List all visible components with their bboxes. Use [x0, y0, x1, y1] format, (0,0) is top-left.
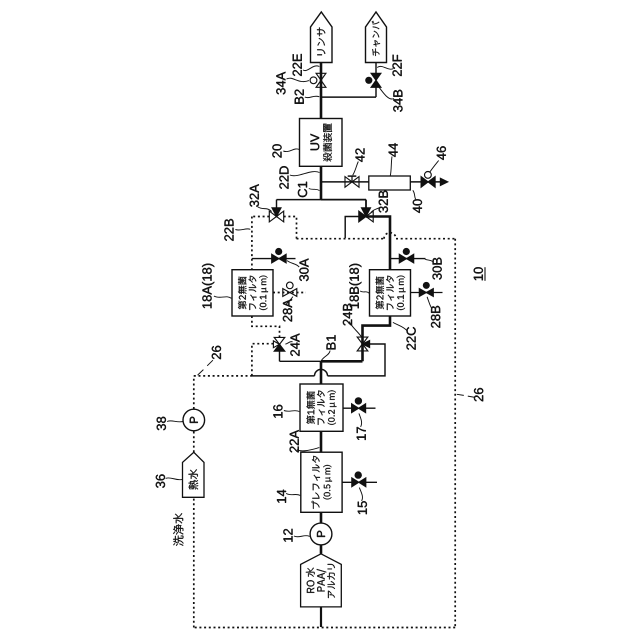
label B2	[295, 90, 304, 104]
pump P38 letter	[190, 417, 198, 423]
filter box 18A	[232, 270, 273, 316]
wire UV-to-C1 segment 22D (bold)	[320, 166, 323, 199]
pump P38 circle	[183, 409, 205, 431]
valve 46 with actuator circle	[425, 172, 432, 179]
wire main riser rinser-to-UV (bold)	[320, 63, 323, 119]
label 42	[355, 148, 364, 162]
chamber outlet box (arrow up)	[366, 12, 387, 63]
label 22E	[293, 54, 302, 76]
label 34B	[393, 90, 402, 112]
valve 28B (closed w/ actuator)	[419, 289, 426, 297]
valve 42 with T handle	[351, 176, 353, 182]
label 30B	[433, 258, 442, 280]
wire B2 branch to valve 34B	[321, 96, 376, 98]
wire C1 right to 32B top (bold)	[321, 199, 366, 201]
wire hot-water hop over main line	[315, 369, 328, 376]
wire dotted right rail 26	[454, 239, 456, 628]
label 22A	[290, 430, 299, 452]
label 22C	[407, 327, 416, 350]
wire stub valve 28B	[411, 292, 443, 294]
pump P12 circle	[310, 523, 332, 545]
label 20	[272, 144, 281, 157]
hot water text	[189, 469, 199, 489]
wire B1 left thin	[280, 360, 322, 362]
label B1	[327, 335, 336, 349]
wire B1 right (bold)	[321, 360, 363, 363]
wire dotted hot-water feed corner	[194, 375, 252, 377]
wire B1 down to filter 16 (bold)	[320, 361, 323, 384]
label 10 underlined	[474, 267, 483, 280]
label 32B	[379, 191, 388, 213]
filter 18B text	[376, 276, 406, 310]
filter 16 text	[306, 390, 336, 424]
wire dotted hot-water branch to 24A	[252, 344, 274, 376]
wire dotted filter 18A to valve 24A	[252, 316, 280, 337]
wire prefilter to pump 12 (bold)	[320, 512, 323, 523]
label 28B	[431, 306, 440, 328]
wire riser chamber below 34B	[375, 88, 377, 98]
wire hot-water feed solid left	[252, 375, 315, 377]
wire 32B drain to return line	[345, 217, 359, 239]
rinser outlet box (arrow up)	[311, 12, 333, 63]
label 18B(18)	[349, 264, 361, 308]
wire valve 24A to B1	[279, 351, 281, 361]
valve 17 (closed w/ actuator)	[352, 404, 359, 413]
UV sterilizer text UV	[311, 134, 320, 150]
three-way valve 24A	[273, 341, 279, 348]
wire drain line 40	[321, 181, 441, 183]
wire dotted pump 38 up to corner	[193, 376, 195, 409]
hot water supply box (arrow up)	[183, 452, 205, 497]
label 44	[389, 143, 398, 157]
label 40	[413, 199, 422, 213]
wire down to valve 32B	[365, 200, 367, 209]
wire stub valve 17	[343, 407, 376, 409]
label 26 left	[212, 346, 221, 359]
label 30A	[299, 259, 308, 282]
label 16	[273, 405, 282, 418]
wire dotted return line 26 left part	[297, 238, 385, 240]
wire dotted bottom rail 26	[194, 627, 455, 629]
label 26 right	[474, 388, 483, 401]
wire riser chamber above 34B	[375, 63, 377, 74]
wire 32A to filter 18A dotted	[251, 217, 253, 270]
wire 32B to filter 18B feed (bold)	[366, 217, 390, 270]
valve 28A (open w/ circle)	[283, 289, 290, 297]
label 36	[156, 474, 165, 487]
filter box 16	[300, 384, 343, 431]
three-way valve 32B	[359, 211, 366, 222]
wire C1 left to valve 32A	[277, 199, 322, 201]
chamber label text	[372, 21, 380, 56]
label 22F	[393, 55, 402, 76]
wire hot-water feed solid right	[328, 344, 386, 376]
filter 18A text	[238, 276, 268, 310]
wire stub valve 30A	[252, 258, 296, 260]
wire dotted return line 26 right part	[396, 238, 455, 240]
three-way valve 24B	[357, 337, 368, 344]
valve 34A (open, to rinser)	[316, 73, 326, 80]
RO water supply box (arrow up)	[301, 554, 342, 607]
valve 30B (closed w/ actuator)	[399, 254, 406, 263]
label C1	[298, 182, 307, 197]
prefilter text	[312, 456, 332, 509]
label 17	[357, 427, 366, 440]
pump P12 letter	[317, 531, 325, 537]
valve 34B (closed, to chamber)	[371, 73, 381, 80]
RO supply text	[306, 564, 335, 598]
label 12	[283, 529, 292, 542]
wire dotted left rail below hot-water tank	[193, 497, 195, 627]
label 15	[358, 501, 367, 514]
wire stub valve 28A dotted	[273, 292, 306, 294]
wire 32A left port dotted	[252, 216, 269, 218]
wire filter 18B to valve 24B (bold)	[363, 316, 391, 361]
three-way valve 32A	[269, 211, 276, 222]
prefilter box 14	[301, 452, 342, 512]
label 22B	[224, 219, 233, 241]
label 14	[277, 490, 286, 503]
wire dotted hot-water tank to pump 38	[193, 431, 195, 452]
label 46	[437, 146, 446, 160]
valve 15 (closed w/ actuator)	[352, 478, 359, 487]
label cleaning water	[173, 513, 183, 546]
wire pump 12 to RO tank (bold)	[320, 545, 323, 554]
label 28A	[283, 299, 292, 321]
label 24A	[290, 334, 299, 356]
UV sterilizer box U20	[300, 119, 343, 167]
wire down to valve 32A	[276, 200, 278, 209]
label 38	[157, 417, 166, 430]
flow component box 44	[369, 176, 411, 190]
wire filter 16 to prefilter (bold)	[320, 431, 323, 452]
wire stub valve 15	[342, 481, 377, 483]
drain outlet arrow 40	[440, 178, 448, 185]
label 18A(18)	[202, 264, 214, 308]
UV sterilizer text jp	[323, 124, 332, 162]
valve 30A (closed w/ actuator)	[272, 254, 279, 263]
label 34A	[276, 72, 285, 95]
wire 32A right port dotted	[284, 217, 297, 239]
filter box 18B	[370, 270, 411, 316]
rinser label text	[317, 28, 325, 56]
label 22D	[279, 166, 288, 189]
wire below RO tank (bold)	[320, 607, 322, 627]
label 32A	[250, 184, 259, 207]
wire return line hop over 18B feed	[384, 233, 396, 239]
label 24B	[343, 304, 352, 326]
wire stub valve 30B	[390, 258, 426, 260]
